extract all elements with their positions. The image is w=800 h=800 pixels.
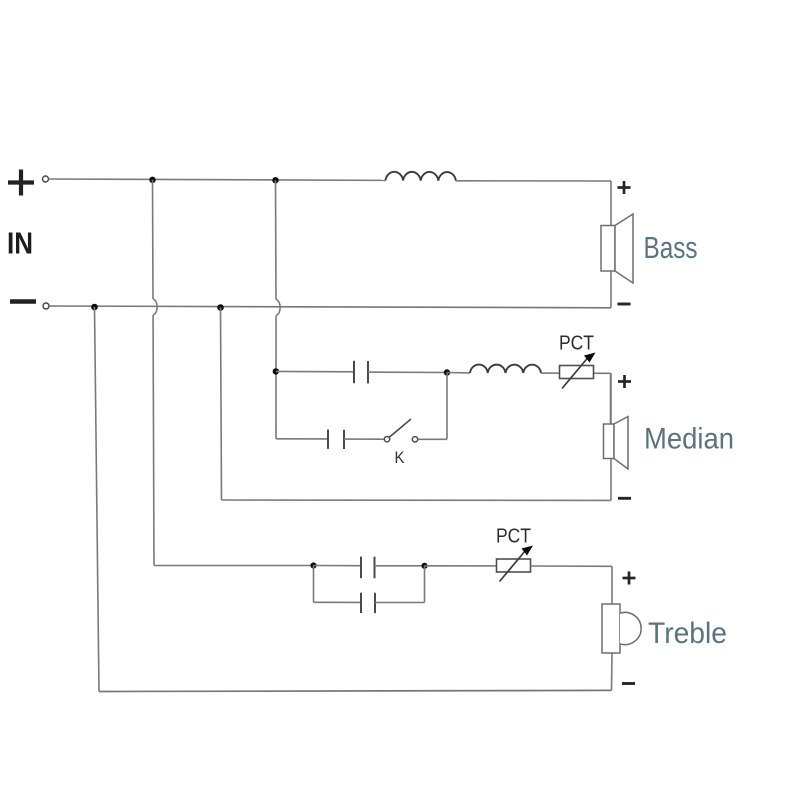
svg-text:IN: IN (7, 226, 33, 261)
capacitor C4 (361, 593, 375, 613)
wire outer minus vertical (95, 307, 100, 692)
wire treble plus drop (611, 566, 613, 604)
speaker bass body (601, 226, 615, 272)
node plus-median-feed junction (272, 177, 278, 183)
median plus mark (618, 375, 631, 388)
wire switch to riser (418, 438, 447, 440)
wire median feed vertical upper (275, 180, 278, 299)
speaker treble dome (620, 612, 641, 644)
switch K lever (389, 419, 411, 437)
wire treble top cap right (375, 565, 425, 567)
capacitor C2 (328, 430, 344, 449)
speaker bass cone (615, 214, 633, 283)
wire R2 to treble (531, 565, 613, 567)
wire treble lower cap left (314, 601, 362, 603)
bass minus mark (618, 303, 631, 306)
node median-cap-left junction (273, 368, 279, 374)
wire treble caps to R2 (425, 565, 497, 567)
wire hop over minus rail at x153 (153, 299, 157, 315)
terminal plus (43, 176, 49, 182)
svg-text:Median: Median (644, 422, 734, 455)
wire median cap branch left (276, 370, 354, 372)
terminal minus (43, 303, 49, 309)
wire treble lower cap drop left (313, 566, 315, 603)
svg-text:PCT: PCT (559, 333, 594, 355)
wire switch branch left (276, 438, 328, 440)
input minus symbol (10, 299, 36, 304)
wire hop over minus rail at x276 (276, 300, 280, 316)
resistor R1 arrow (562, 358, 588, 389)
wire treble feed vertical upper (152, 180, 155, 299)
wire median bottom rail (222, 499, 612, 501)
node median-branch-merge junction (444, 369, 450, 375)
wire plus rail right (456, 180, 611, 182)
inductor L2 (470, 365, 541, 374)
wire treble feed vertical lower (152, 315, 155, 566)
wire L2 to R1 (541, 372, 611, 374)
inductor L1 (386, 172, 456, 181)
node minus-median-return junction (217, 304, 224, 311)
svg-text:K: K (395, 448, 406, 467)
svg-text:Treble: Treble (648, 617, 727, 650)
wire treble feed horizontal (154, 565, 314, 567)
wire to inductor L2 (447, 372, 470, 374)
svg-text:Bass: Bass (644, 231, 698, 265)
resistor R2 arrow (500, 551, 526, 582)
bass plus mark (618, 181, 631, 194)
svg-text:PCT: PCT (496, 526, 531, 548)
switch K throw (412, 437, 417, 442)
wire minus rail (50, 306, 612, 308)
wire treble top cap left (314, 565, 362, 567)
resistor R2 PCT box (497, 559, 531, 572)
speaker median cone (614, 417, 628, 470)
wire plus rail left (49, 179, 386, 180)
node plus-treble-feed junction (149, 177, 155, 183)
wire median minus rise (610, 373, 612, 500)
resistor R1 PCT box (560, 366, 594, 379)
wire bass plus drop (610, 181, 612, 308)
treble plus mark (623, 572, 636, 585)
wire treble lower cap rise right (424, 566, 426, 603)
capacitor C3 (361, 557, 375, 579)
wire median cap branch right (368, 371, 447, 373)
speaker treble body (602, 604, 620, 653)
node minus-outer junction (91, 304, 98, 311)
median minus mark (618, 497, 631, 500)
wire median return vertical (221, 308, 222, 501)
wire treble bottom rail (99, 690, 612, 691)
treble minus mark (622, 682, 635, 685)
wire median plus drop (610, 373, 612, 424)
speaker median body (604, 424, 615, 459)
wire median feed vertical lower (275, 316, 277, 439)
node treble-cap-left junction (310, 562, 316, 568)
wire treble lower cap right (375, 602, 425, 604)
wire switch riser (446, 373, 448, 440)
switch K pole (384, 437, 389, 442)
node treble-cap-right junction (421, 563, 427, 569)
wire C2 to switch (344, 438, 384, 440)
capacitor C1 (354, 361, 368, 384)
wire treble minus rise (611, 653, 614, 690)
input plus symbol (8, 170, 34, 196)
